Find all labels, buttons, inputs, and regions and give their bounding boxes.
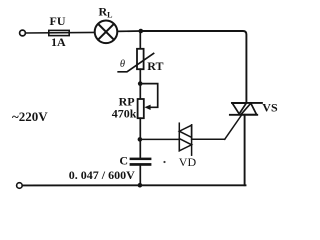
- node B junction dot: [138, 81, 143, 86]
- svg-text:RL: RL: [99, 5, 113, 20]
- node D junction dot: [138, 183, 143, 188]
- svg-text:470k: 470k: [112, 106, 137, 120]
- wire RT to RP: [139, 69, 141, 99]
- potentiometer RP: [138, 99, 144, 118]
- svg-text:0. 047 / 600V: 0. 047 / 600V: [69, 168, 135, 182]
- bottom rail wire: [22, 184, 245, 186]
- wire diac to gate: [192, 138, 225, 140]
- capacitor C plate 1: [130, 158, 152, 161]
- svg-text:~220V: ~220V: [12, 109, 48, 124]
- svg-text:θ: θ: [120, 59, 125, 70]
- wire node C to diac: [140, 138, 179, 140]
- node A junction dot: [139, 29, 144, 34]
- svg-text:RT: RT: [147, 59, 163, 73]
- wire C to bottom rail: [139, 166, 141, 185]
- top rail wire to right corner and down: [141, 31, 247, 102]
- gate diagonal wire: [225, 115, 242, 139]
- terminal bottom-left: [17, 183, 23, 189]
- diac VD: [179, 123, 191, 155]
- node C junction dot: [138, 137, 143, 142]
- svg-text:VS: VS: [262, 101, 278, 115]
- terminal top-left: [20, 30, 26, 36]
- speck: [163, 161, 165, 163]
- wire node A down to RT: [139, 31, 141, 49]
- svg-text:1A: 1A: [51, 35, 66, 49]
- lamp RL: [95, 21, 118, 44]
- svg-text:C: C: [119, 154, 128, 168]
- wire RP to C: [139, 118, 141, 157]
- wire top-left to lamp: [25, 31, 95, 34]
- wiper arrowhead: [144, 105, 150, 110]
- thermistor RT: [118, 49, 153, 72]
- svg-text:FU: FU: [50, 14, 66, 28]
- capacitor C plate 2: [130, 163, 152, 166]
- fuse FU: [49, 30, 69, 35]
- svg-text:VD: VD: [179, 155, 197, 169]
- wire lamp to node A: [117, 30, 140, 32]
- triac VS: [230, 103, 262, 185]
- wiper short wire: [140, 84, 158, 108]
